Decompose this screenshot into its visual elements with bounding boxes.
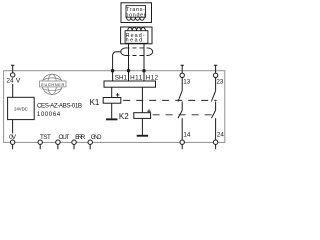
wire power supply to 0V terminal [12, 120, 14, 140]
svg-text:14: 14 [183, 132, 191, 139]
wire H11 to terminal strip [128, 71, 130, 81]
terminal 13 stub [181, 65, 184, 73]
terminal 0V stub [12, 144, 14, 149]
wire H12 from read head to node H12 [143, 44, 145, 71]
terminal 23 [213, 73, 217, 77]
svg-text:100064: 100064 [37, 111, 61, 118]
terminal 14 stub [181, 144, 183, 149]
contact K2.2 blade [211, 110, 215, 118]
terminal 24 stub [215, 144, 217, 149]
terminal 24V [11, 73, 15, 77]
ground of K1 [106, 118, 117, 120]
svg-text:24: 24 [6, 78, 14, 85]
svg-text:H12: H12 [146, 74, 159, 81]
node H12 [142, 69, 145, 72]
wire K2 to ground [141, 118, 143, 134]
terminal ERR [72, 140, 76, 144]
terminal 14 [180, 140, 184, 144]
wire K1 to ground [111, 103, 113, 118]
terminal OUT [56, 140, 60, 144]
svg-text:13: 13 [183, 79, 191, 86]
transponder inner body [126, 6, 146, 18]
wire contact K1.2 to contact K2.2 [215, 102, 217, 111]
wire H12 to terminal strip [143, 71, 145, 81]
wire 24V terminal to power supply [12, 77, 14, 97]
terminal TST stub [39, 144, 41, 149]
svg-text:24VDC: 24VDC [14, 107, 28, 112]
terminal ERR stub [73, 144, 75, 149]
svg-text:EUCHNER: EUCHNER [41, 83, 64, 87]
node SH1 [111, 69, 114, 72]
contact K1.1 blade [178, 91, 182, 102]
svg-text:V: V [16, 78, 21, 85]
svg-text:24: 24 [217, 132, 225, 139]
svg-text:SH1: SH1 [115, 74, 128, 81]
terminal 0V [10, 140, 14, 144]
relay coil K2 [134, 113, 151, 119]
svg-text:K1: K1 [90, 98, 100, 107]
terminal 24 [213, 140, 217, 144]
svg-text:TST: TST [40, 134, 51, 141]
wire terminal strip to relay K2 [141, 87, 143, 113]
terminal TST [38, 140, 42, 144]
wire shield to node SH1 [113, 52, 121, 71]
dashed linkage of K2 to contacts [153, 114, 217, 116]
transponder coil L1 [127, 17, 145, 20]
svg-text:CES-AZ-ABS-01B: CES-AZ-ABS-01B [37, 103, 82, 110]
polarity + of K1 [116, 93, 120, 97]
read head inner body [125, 31, 148, 44]
contact K2.1 blade [178, 110, 182, 118]
wire SH1 to terminal strip [112, 71, 114, 81]
svg-text:K2: K2 [119, 112, 129, 121]
svg-text:ERR: ERR [75, 134, 86, 141]
terminal GND stub [89, 144, 91, 149]
wire H11 from read head to node H11 [128, 44, 130, 71]
wire terminal strip to relay K1 [111, 87, 113, 97]
wire 13 to contact K1.1 [181, 78, 183, 91]
svg-text:23: 23 [216, 79, 224, 86]
wire contact K2.2 to terminal 24 [215, 118, 217, 140]
svg-text:H11: H11 [130, 74, 142, 81]
cable shield around H11/H12 [121, 48, 153, 56]
dashed linkage of K1 to contacts [123, 99, 216, 101]
svg-text:GND: GND [91, 134, 102, 141]
contact K1.2 blade [211, 91, 215, 102]
read head outer box [121, 27, 152, 44]
terminal strip X1 [104, 81, 156, 87]
enclosure box CES-AZ evaluation unit [4, 71, 225, 143]
polarity + of K2 [147, 109, 151, 113]
terminal 13 [180, 73, 184, 77]
terminal GND [88, 140, 92, 144]
node H11 [127, 69, 130, 72]
power supply 24VDC [8, 97, 35, 119]
read head coil L2 [128, 28, 146, 31]
wire contact K2.1 to terminal 14 [181, 118, 183, 140]
wire 23 to contact K1.2 [215, 78, 217, 91]
terminal OUT stub [57, 144, 59, 149]
svg-text:OUT: OUT [59, 134, 70, 141]
EUCHNER logo globe [42, 74, 62, 94]
svg-text:head: head [126, 38, 143, 44]
relay coil K1 [103, 98, 121, 104]
ground of K2 [137, 135, 148, 137]
EUCHNER logo banner [40, 81, 66, 87]
terminal 24V stub [11, 65, 14, 73]
transponder outer box [121, 3, 152, 23]
wire contact K1.1 to contact K2.1 [181, 102, 183, 111]
terminal 23 stub [214, 65, 217, 73]
